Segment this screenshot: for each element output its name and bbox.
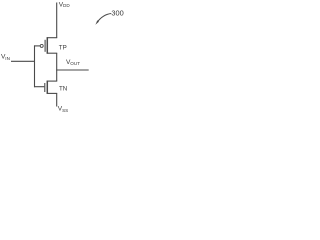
svg-text:300: 300: [111, 8, 123, 17]
svg-text:DD: DD: [63, 3, 70, 8]
wire VDD rail: [56, 3, 58, 38]
wire input from VIN: [11, 60, 35, 62]
transistor TN (NMOS) channel bar: [46, 81, 48, 94]
transistor TP (PMOS) source lead bottom: [47, 52, 57, 54]
wire TP gate lead: [34, 45, 40, 47]
transistor TN (NMOS) gate bar: [44, 83, 46, 92]
lead line arrow for 300: [97, 14, 111, 23]
arrowhead of 300 lead line: [95, 20, 99, 25]
transistor TP (PMOS) gate bar: [44, 40, 46, 52]
transistor TP (PMOS) drain lead top: [47, 37, 57, 39]
transistor TN (NMOS) source lead bottom: [47, 92, 57, 94]
transistor TN (NMOS) drain lead top: [47, 80, 57, 82]
svg-text:TN: TN: [59, 86, 67, 93]
wire output branch to VOUT: [56, 69, 88, 71]
svg-text:IN: IN: [5, 56, 10, 61]
wire TN gate lead: [34, 86, 44, 88]
svg-text:TP: TP: [59, 45, 67, 52]
wire VSS rail: [56, 93, 58, 106]
transistor TP (PMOS) channel bar: [46, 37, 48, 54]
wire input gate rail: [34, 45, 36, 87]
svg-text:SS: SS: [62, 108, 68, 113]
wire output rail (TP source to TN drain): [56, 53, 58, 81]
transistor TP (PMOS) gate bubble: [40, 44, 43, 47]
svg-text:OUT: OUT: [70, 61, 80, 66]
